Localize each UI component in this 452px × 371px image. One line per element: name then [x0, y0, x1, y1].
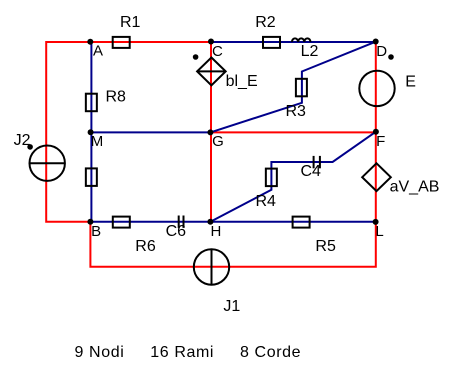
svg-text:B: B	[91, 223, 101, 240]
wire	[211, 41, 376, 43]
resistor (unlabeled, M-B branch)	[86, 168, 97, 186]
svg-text:A: A	[93, 43, 103, 60]
wire	[46, 42, 211, 222]
inductor L2	[292, 38, 311, 42]
controlled voltage source aV_AB	[362, 163, 391, 191]
current source J2	[30, 146, 65, 181]
svg-text:J2: J2	[14, 132, 31, 149]
wire	[210, 42, 212, 222]
node F	[373, 129, 379, 135]
wire	[90, 42, 92, 222]
resistor R5	[293, 217, 310, 228]
node G	[207, 129, 213, 135]
wire	[375, 42, 377, 132]
polarity dot bl_E	[193, 54, 199, 60]
resistor R3	[296, 79, 307, 97]
wire	[90, 132, 375, 267]
controlled current source bl_E	[197, 58, 226, 86]
capacitor C4	[314, 156, 320, 168]
capacitor C6	[179, 216, 184, 228]
svg-text:C: C	[212, 43, 223, 60]
svg-text:R3: R3	[286, 103, 307, 120]
node B	[87, 219, 93, 225]
node C	[208, 39, 214, 45]
svg-text:H: H	[211, 223, 222, 240]
node A	[87, 39, 93, 45]
resistor R6	[113, 217, 130, 228]
voltage source E	[359, 71, 394, 106]
polarity dot E	[388, 54, 394, 60]
resistor R4	[266, 169, 277, 187]
svg-text:J1: J1	[223, 298, 240, 315]
svg-text:aV_AB: aV_AB	[390, 179, 440, 196]
svg-text:R5: R5	[315, 238, 336, 255]
wire	[210, 132, 376, 222]
svg-text:R2: R2	[255, 14, 276, 31]
svg-text:R1: R1	[120, 14, 141, 31]
wire	[90, 221, 375, 223]
svg-text:G: G	[212, 133, 224, 150]
svg-text:9 Nodi: 9 Nodi	[75, 344, 125, 361]
svg-text:F: F	[376, 133, 385, 150]
svg-text:R8: R8	[106, 89, 127, 106]
svg-text:M: M	[91, 133, 104, 150]
resistor R8	[86, 94, 97, 112]
svg-text:R6: R6	[135, 238, 156, 255]
svg-text:D: D	[376, 43, 387, 60]
svg-text:L2: L2	[301, 43, 319, 60]
node L	[373, 219, 379, 225]
resistor R2	[263, 37, 280, 48]
polarity dot J2	[27, 144, 33, 150]
svg-text:bl_E: bl_E	[226, 73, 258, 90]
node M	[88, 129, 94, 135]
node D	[373, 39, 379, 45]
svg-text:C4: C4	[301, 163, 322, 180]
svg-text:L: L	[375, 223, 383, 240]
svg-text:R4: R4	[256, 193, 277, 210]
svg-text:E: E	[405, 74, 416, 91]
svg-text:C6: C6	[166, 223, 187, 240]
svg-text:8 Corde: 8 Corde	[240, 344, 301, 361]
current source J1	[194, 249, 229, 284]
wire	[211, 131, 376, 133]
wire	[91, 131, 210, 133]
wire	[210, 42, 375, 133]
svg-text:16 Rami: 16 Rami	[150, 344, 214, 361]
resistor R1	[113, 37, 130, 48]
node H	[207, 219, 213, 225]
